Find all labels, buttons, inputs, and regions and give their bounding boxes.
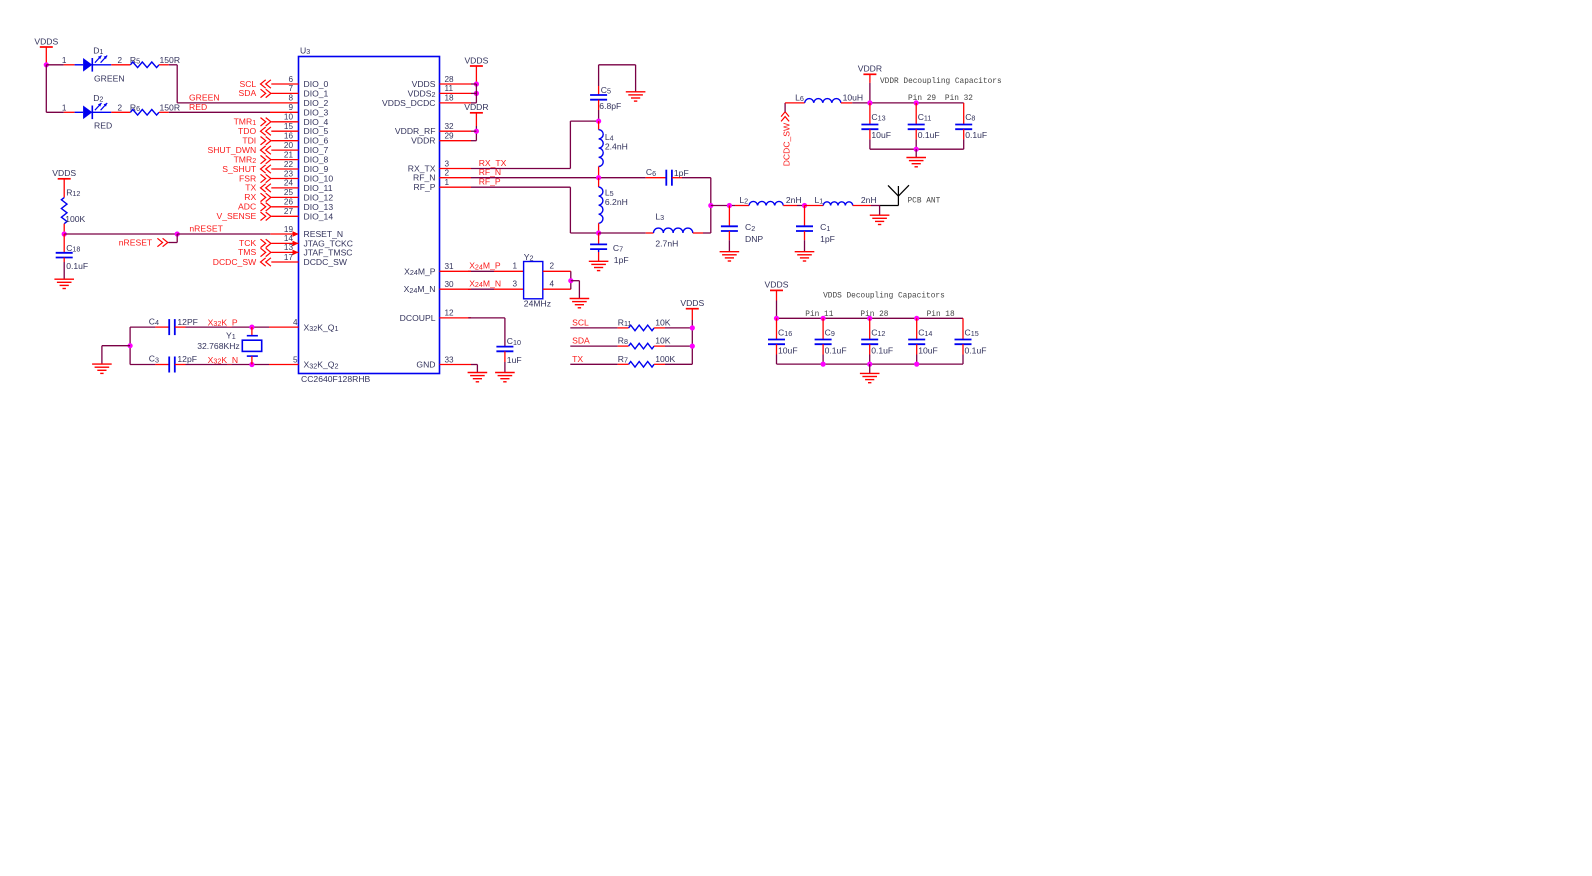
svg-text:25: 25	[284, 188, 294, 197]
svg-text:6: 6	[288, 75, 293, 84]
svg-text:nRESET: nRESET	[189, 224, 223, 234]
svg-text:L1: L1	[815, 195, 824, 206]
svg-text:TMS: TMS	[238, 247, 256, 257]
svg-text:X32K_Q1: X32K_Q1	[304, 322, 339, 333]
svg-text:10K: 10K	[655, 317, 671, 327]
svg-text:VDDR: VDDR	[411, 136, 435, 146]
svg-text:6.8pF: 6.8pF	[599, 101, 621, 111]
svg-text:VDDS Decoupling Capacitors: VDDS Decoupling Capacitors	[823, 292, 945, 300]
svg-text:30: 30	[445, 280, 455, 289]
svg-text:100K: 100K	[65, 214, 85, 224]
svg-text:5: 5	[293, 356, 298, 365]
svg-text:1pF: 1pF	[674, 168, 689, 178]
svg-text:12pF: 12pF	[177, 354, 197, 364]
svg-text:DIO_1: DIO_1	[304, 88, 329, 98]
svg-text:L6: L6	[795, 92, 804, 103]
svg-text:TX: TX	[572, 354, 583, 364]
svg-text:26: 26	[284, 198, 294, 207]
svg-text:ADC: ADC	[238, 202, 256, 212]
svg-text:C18: C18	[66, 243, 80, 254]
svg-text:RED: RED	[189, 102, 207, 112]
svg-text:20: 20	[284, 141, 294, 150]
svg-text:Pin 32: Pin 32	[945, 95, 973, 103]
svg-text:18: 18	[445, 94, 455, 103]
svg-text:14: 14	[284, 234, 294, 243]
svg-text:150R: 150R	[160, 102, 181, 112]
svg-text:L2: L2	[739, 195, 748, 206]
svg-text:19: 19	[284, 225, 294, 234]
svg-text:Pin 18: Pin 18	[927, 311, 955, 319]
svg-text:VDDS: VDDS	[464, 55, 488, 65]
svg-text:32: 32	[445, 122, 455, 131]
svg-text:SDA: SDA	[572, 336, 590, 346]
svg-text:C2: C2	[745, 222, 755, 233]
svg-text:0.1uF: 0.1uF	[965, 130, 987, 140]
svg-text:VDDS: VDDS	[52, 168, 76, 178]
svg-text:VDDS_DCDC: VDDS_DCDC	[382, 98, 435, 108]
svg-text:X24M_N: X24M_N	[469, 279, 501, 290]
svg-text:1: 1	[512, 262, 517, 271]
svg-text:1: 1	[62, 56, 67, 65]
svg-text:RF_P: RF_P	[479, 177, 501, 187]
svg-text:1pF: 1pF	[820, 234, 835, 244]
svg-text:13: 13	[284, 243, 294, 252]
svg-text:12PF: 12PF	[177, 317, 198, 327]
svg-text:C12: C12	[871, 327, 885, 338]
svg-text:2nH: 2nH	[786, 195, 802, 205]
svg-text:R12: R12	[66, 188, 80, 199]
svg-text:R8: R8	[618, 336, 628, 347]
svg-text:21: 21	[284, 150, 294, 159]
svg-text:100K: 100K	[655, 354, 675, 364]
svg-text:9: 9	[288, 103, 293, 112]
svg-text:0.1uF: 0.1uF	[918, 130, 940, 140]
svg-text:10: 10	[284, 113, 294, 122]
svg-text:DNP: DNP	[745, 234, 763, 244]
svg-text:10K: 10K	[655, 336, 671, 346]
svg-text:12: 12	[445, 309, 455, 318]
svg-text:Y1: Y1	[226, 331, 236, 342]
svg-text:0.1uF: 0.1uF	[871, 345, 893, 355]
svg-text:10uF: 10uF	[778, 345, 798, 355]
svg-text:PCB ANT: PCB ANT	[908, 197, 941, 205]
svg-text:10uH: 10uH	[843, 92, 864, 102]
svg-text:2: 2	[445, 169, 450, 178]
svg-text:Pin 29: Pin 29	[908, 95, 936, 103]
svg-text:DIO_5: DIO_5	[304, 126, 329, 136]
svg-text:33: 33	[445, 355, 455, 364]
svg-text:DIO_7: DIO_7	[304, 145, 329, 155]
svg-text:C15: C15	[965, 327, 979, 338]
svg-text:nRESET: nRESET	[119, 237, 153, 247]
svg-text:2nH: 2nH	[861, 195, 877, 205]
svg-text:DIO_9: DIO_9	[304, 164, 329, 174]
svg-text:1pF: 1pF	[614, 255, 629, 265]
svg-text:C3: C3	[149, 354, 159, 365]
svg-text:RF_N: RF_N	[413, 173, 435, 183]
svg-text:23: 23	[284, 169, 294, 178]
svg-text:CC2640F128RHB: CC2640F128RHB	[301, 374, 371, 384]
svg-text:GREEN: GREEN	[94, 74, 125, 84]
svg-text:Y2: Y2	[524, 252, 534, 263]
svg-text:DIO_13: DIO_13	[304, 202, 334, 212]
svg-text:22: 22	[284, 160, 294, 169]
svg-text:0.1uF: 0.1uF	[965, 345, 987, 355]
svg-text:7: 7	[288, 84, 293, 93]
svg-text:3: 3	[512, 280, 517, 289]
svg-text:DCDC_SW: DCDC_SW	[304, 257, 348, 267]
svg-text:31: 31	[445, 262, 455, 271]
svg-text:VDDR_RF: VDDR_RF	[395, 126, 436, 136]
svg-text:RED: RED	[94, 121, 112, 131]
svg-text:DIO_3: DIO_3	[304, 107, 329, 117]
svg-text:24: 24	[284, 179, 294, 188]
svg-text:X24M_P: X24M_P	[469, 261, 501, 272]
svg-text:RF_P: RF_P	[414, 182, 436, 192]
svg-text:1uF: 1uF	[507, 355, 522, 365]
svg-text:VDDR: VDDR	[464, 102, 488, 112]
svg-text:17: 17	[284, 253, 294, 262]
svg-text:29: 29	[445, 132, 455, 141]
svg-text:C16: C16	[778, 327, 792, 338]
svg-text:GND: GND	[416, 360, 435, 370]
svg-text:VDDS: VDDS	[680, 298, 704, 308]
svg-text:1: 1	[62, 104, 67, 113]
svg-text:R5: R5	[130, 55, 140, 66]
svg-text:X24M_P: X24M_P	[404, 266, 436, 277]
svg-text:24MHz: 24MHz	[524, 298, 551, 308]
svg-text:U3: U3	[300, 46, 310, 57]
svg-text:C14: C14	[918, 327, 932, 338]
svg-text:28: 28	[445, 75, 455, 84]
svg-text:27: 27	[284, 207, 294, 216]
svg-text:4: 4	[550, 280, 555, 289]
svg-text:SCL: SCL	[572, 317, 589, 327]
svg-text:V_SENSE: V_SENSE	[217, 211, 257, 221]
svg-text:C13: C13	[871, 112, 885, 123]
svg-text:6.2nH: 6.2nH	[605, 197, 628, 207]
svg-text:DCOUPL: DCOUPL	[400, 313, 436, 323]
svg-text:11: 11	[445, 84, 454, 93]
svg-text:C1: C1	[820, 222, 830, 233]
svg-text:4: 4	[293, 318, 298, 327]
svg-text:1: 1	[445, 178, 450, 187]
svg-text:2: 2	[118, 56, 123, 65]
svg-text:X24M_N: X24M_N	[404, 284, 436, 295]
svg-text:C7: C7	[613, 243, 623, 254]
svg-text:JTAF_TMSC: JTAF_TMSC	[304, 247, 353, 257]
svg-text:DCDC_SW: DCDC_SW	[213, 257, 257, 267]
svg-text:C10: C10	[507, 336, 521, 347]
svg-text:SDA: SDA	[239, 88, 257, 98]
svg-text:C9: C9	[825, 327, 835, 338]
svg-text:10uF: 10uF	[871, 130, 891, 140]
svg-text:D1: D1	[93, 46, 103, 57]
svg-text:X32K_Q2: X32K_Q2	[304, 360, 339, 371]
svg-text:8: 8	[288, 94, 293, 103]
svg-text:2: 2	[118, 104, 123, 113]
svg-text:C6: C6	[646, 167, 656, 178]
svg-text:Pin 28: Pin 28	[860, 311, 888, 319]
svg-text:10uF: 10uF	[918, 345, 938, 355]
svg-text:2: 2	[550, 262, 555, 271]
svg-text:3: 3	[445, 159, 450, 168]
svg-text:R7: R7	[618, 354, 628, 365]
svg-text:VDDR: VDDR	[858, 64, 882, 74]
svg-text:RF_N: RF_N	[479, 167, 501, 177]
svg-text:SHUT_DWN: SHUT_DWN	[207, 145, 256, 155]
svg-text:L3: L3	[655, 211, 664, 222]
svg-text:X32K_N: X32K_N	[208, 355, 238, 366]
svg-text:C4: C4	[149, 316, 159, 327]
svg-text:X32K_P: X32K_P	[208, 317, 238, 328]
svg-text:0.1uF: 0.1uF	[66, 261, 88, 271]
svg-text:0.1uF: 0.1uF	[825, 345, 847, 355]
svg-text:DCDC_SW: DCDC_SW	[781, 122, 791, 166]
svg-text:32.768KHz: 32.768KHz	[197, 341, 240, 351]
svg-text:2.4nH: 2.4nH	[605, 141, 628, 151]
svg-text:C5: C5	[601, 85, 611, 96]
svg-text:DIO_11: DIO_11	[304, 183, 333, 193]
svg-text:Pin 11: Pin 11	[805, 311, 833, 319]
svg-text:R6: R6	[130, 102, 140, 113]
svg-text:15: 15	[284, 122, 294, 131]
svg-text:150R: 150R	[160, 55, 181, 65]
svg-text:DIO_14: DIO_14	[304, 211, 334, 221]
svg-text:S_SHUT: S_SHUT	[222, 164, 257, 174]
svg-text:C11: C11	[918, 112, 932, 123]
svg-text:TX: TX	[245, 183, 256, 193]
svg-text:TDO: TDO	[238, 126, 256, 136]
svg-text:R11: R11	[618, 317, 632, 328]
svg-text:VDDS: VDDS	[765, 280, 789, 290]
svg-text:2.7nH: 2.7nH	[655, 238, 678, 248]
svg-text:VDDR Decoupling Capacitors: VDDR Decoupling Capacitors	[880, 78, 1002, 86]
svg-text:VDDS: VDDS	[34, 36, 58, 46]
svg-text:D2: D2	[93, 93, 103, 104]
svg-text:C8: C8	[965, 112, 975, 123]
svg-text:16: 16	[284, 132, 294, 141]
